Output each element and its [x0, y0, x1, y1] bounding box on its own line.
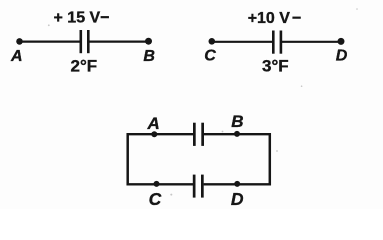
node D (loop bottom-right) [231, 181, 244, 209]
wire: loop top side, left segment to capacitor plate [127, 133, 194, 135]
node C [204, 38, 216, 65]
svg-text:A: A [147, 114, 160, 133]
wire: right plate of capacitor 2uF to node B [89, 40, 148, 42]
capacitor (top of loop, between A and B) [193, 123, 204, 146]
svg-text:2°F: 2°F [71, 56, 98, 75]
svg-text:B: B [143, 48, 155, 65]
node A (loop top-left) [147, 114, 160, 137]
wire: loop bottom side, capacitor to right corner [204, 183, 271, 185]
wire: loop bottom side, left segment to capacitor plate [127, 183, 194, 185]
node D [336, 38, 348, 65]
svg-text:B: B [231, 112, 243, 131]
capacitor 3uF (between C and D) [272, 31, 282, 54]
svg-text:+10 V−: +10 V− [248, 10, 302, 27]
wire: loop left vertical side [126, 133, 129, 185]
wire: node C to left plate of capacitor 3uF [212, 41, 273, 43]
svg-text:A: A [10, 48, 23, 65]
node C (loop bottom-left) [149, 181, 162, 209]
node B (loop top-right) [231, 112, 243, 137]
node A [10, 38, 23, 65]
wire: loop right vertical side [269, 133, 272, 185]
capacitor (bottom of loop, between C and D) [193, 175, 204, 198]
svg-text:C: C [204, 48, 216, 65]
node B [143, 38, 155, 65]
wire: loop top side, capacitor to right corner [204, 133, 271, 135]
svg-text:D: D [336, 48, 348, 65]
svg-text:+ 15 V−: + 15 V− [54, 9, 110, 26]
svg-text:3°F: 3°F [262, 56, 289, 75]
wire: right plate of capacitor 3uF to node D [282, 41, 341, 43]
wire: node A to left plate of capacitor 2uF [20, 40, 81, 42]
capacitor 2uF (between A and B) [80, 30, 90, 53]
svg-text:D: D [231, 189, 244, 209]
svg-text:C: C [149, 189, 162, 209]
